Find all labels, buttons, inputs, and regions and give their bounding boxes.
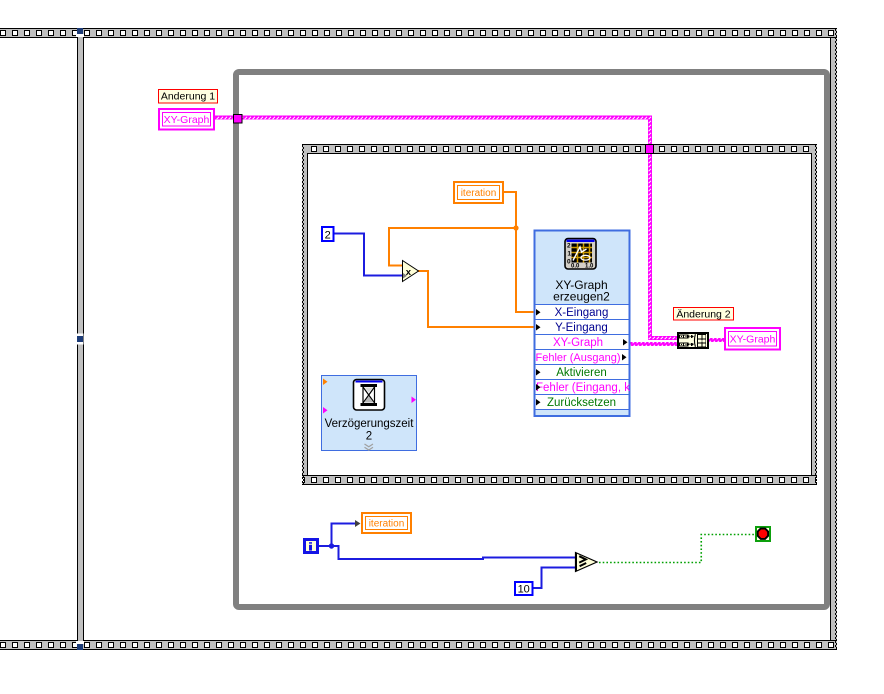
svg-text:XY-Graph: XY-Graph: [164, 114, 210, 126]
wire comparator to stop terminal (green dotted): [599, 535, 755, 563]
wire iteration label to junction (orange): [504, 191, 517, 228]
wire express VI XY-Graph output to bundle node (magenta hatched): [630, 342, 677, 346]
svg-text:Fehler (Eingang, k: Fehler (Eingang, k: [536, 382, 630, 394]
tunnel on while loop left border: [234, 115, 243, 124]
outer flat sequence structure: top border bar: [0, 28, 837, 38]
wire i terminal to junction and iteration label (blue): [319, 523, 356, 548]
svg-text:0.0: 0.0: [571, 263, 580, 269]
svg-text:erzeugen2: erzeugen2: [553, 290, 610, 304]
svg-text:Zurücksetzen: Zurücksetzen: [547, 397, 616, 409]
svg-text:Anderung 1: Anderung 1: [161, 91, 215, 103]
express VI Verzögerungszeit 2: [322, 376, 417, 451]
svg-text:2: 2: [325, 230, 331, 242]
svg-text:Aktivieren: Aktivieren: [556, 367, 607, 379]
tunnel on event structure top border: [646, 145, 654, 154]
selection handle bottom: [76, 640, 84, 650]
svg-text:1: 1: [567, 250, 571, 257]
wire constant 2 to multiply (blue): [334, 233, 403, 277]
selection handle top: [76, 28, 84, 38]
wire constant 10 to comparator (blue): [534, 567, 576, 590]
stop terminal: [756, 527, 770, 541]
inner event structure: bottom border bar: [302, 475, 817, 485]
label Anderung 1: [159, 90, 218, 104]
svg-text:Änderung 2: Änderung 2: [676, 309, 730, 321]
svg-text:XY-Graph: XY-Graph: [730, 334, 776, 346]
hourglass icon: [354, 380, 385, 411]
svg-text:Verzögerungszeit: Verzögerungszeit: [325, 418, 415, 430]
selection handle middle: [77, 334, 84, 345]
label Änderung 2: [674, 308, 734, 321]
multiply node: [403, 261, 419, 282]
svg-text:x: x: [406, 267, 412, 278]
wire junction left branch to multiply (orange): [388, 227, 516, 266]
outer flat sequence structure: bottom border bar: [0, 640, 837, 650]
express VI icon (graph): [565, 239, 596, 270]
while loop border: [236, 72, 827, 607]
constant 10: [515, 582, 533, 596]
constant 2: [322, 227, 334, 242]
iteration terminal i: [303, 538, 319, 554]
wire i junction to comparator (blue): [332, 545, 577, 560]
wire multiply output to Y-Eingang (orange): [418, 270, 534, 328]
bundle node: [677, 332, 709, 349]
wire junction down to X-Eingang (orange): [515, 228, 534, 313]
svg-text:2: 2: [567, 242, 571, 249]
svg-text:2: 2: [366, 431, 372, 443]
inner event structure: left border: [302, 145, 308, 484]
svg-text:Fehler (Ausgang): Fehler (Ausgang): [536, 352, 621, 364]
svg-text:Y-Eingang: Y-Eingang: [555, 322, 608, 334]
wire bundle node to XY-Graph indicator (magenta hatched): [709, 338, 725, 342]
inner event structure: top border bar: [302, 144, 817, 154]
label iteration (bottom): [362, 513, 411, 533]
junction dot orange: [513, 225, 518, 230]
svg-text:iteration: iteration: [369, 519, 405, 530]
svg-text:iteration: iteration: [461, 188, 497, 199]
inner event structure: right border: [811, 145, 817, 484]
outer flat sequence structure: right border: [830, 29, 837, 649]
svg-text:XY-Graph: XY-Graph: [553, 337, 603, 349]
junction dot blue: [329, 543, 334, 548]
svg-text:X-Eingang: X-Eingang: [555, 307, 609, 319]
terminal XY-Graph (left, control): [159, 109, 214, 130]
outer flat sequence structure: frame divider: [77, 38, 84, 640]
svg-text:1.0: 1.0: [585, 263, 594, 269]
terminal XY-Graph (right, indicator): [725, 328, 780, 350]
label iteration (top, event structure): [454, 182, 503, 203]
wire arrowhead at iteration label: [355, 520, 361, 527]
comparator greater-or-equal node: [575, 553, 597, 572]
wire XY-Graph control to tunnel (magenta hatched, horizontal): [215, 116, 652, 120]
express VI XY-Graph erzeugen2: [535, 231, 631, 417]
wire magenta vertical drop into event structure: [648, 120, 677, 341]
svg-text:10: 10: [518, 584, 530, 596]
